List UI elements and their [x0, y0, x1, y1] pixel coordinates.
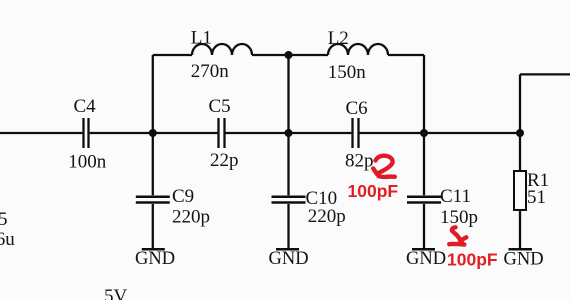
svg-text:270n: 270n — [191, 61, 230, 82]
svg-text:100n: 100n — [68, 152, 107, 173]
svg-text:GND: GND — [406, 249, 446, 269]
svg-text:GND: GND — [269, 249, 309, 269]
svg-text:C4: C4 — [74, 96, 97, 117]
svg-text:82p: 82p — [345, 151, 374, 172]
svg-text:5V: 5V — [104, 286, 128, 300]
svg-text:C11: C11 — [440, 186, 471, 207]
svg-text:C5: C5 — [209, 96, 231, 117]
svg-text:5: 5 — [0, 209, 8, 230]
svg-text:150p: 150p — [440, 207, 478, 228]
svg-text:220p: 220p — [308, 206, 346, 227]
svg-text:GND: GND — [504, 249, 544, 269]
svg-text:51: 51 — [527, 187, 546, 208]
svg-text:100pF: 100pF — [348, 181, 399, 201]
svg-text:100pF: 100pF — [447, 250, 498, 270]
svg-text:22p: 22p — [210, 150, 239, 171]
svg-text:C9: C9 — [172, 186, 194, 207]
svg-text:150n: 150n — [328, 62, 367, 83]
svg-text:C6: C6 — [346, 98, 368, 119]
svg-text:L2: L2 — [328, 28, 349, 49]
svg-text:220p: 220p — [172, 207, 210, 228]
svg-text:L1: L1 — [191, 28, 212, 49]
svg-text:GND: GND — [135, 249, 175, 269]
svg-text:6u: 6u — [0, 229, 15, 250]
